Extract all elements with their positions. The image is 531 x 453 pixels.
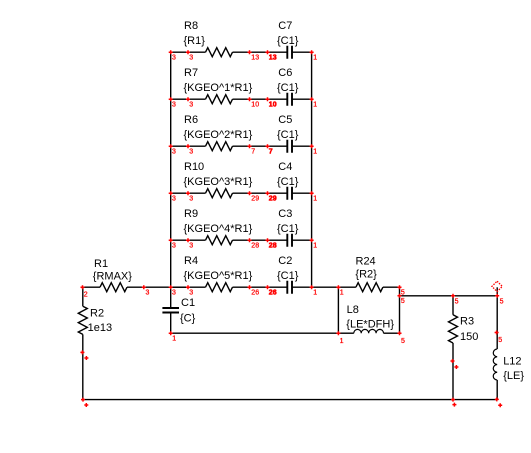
capacitor C3 (268, 208, 312, 247)
svg-text:5: 5 (500, 298, 504, 305)
pin numbers row R10/C4 (172, 196, 317, 203)
svg-text:5: 5 (401, 298, 405, 305)
pin numbers row R9/C3 (172, 243, 317, 250)
svg-text:{RMAX}: {RMAX} (93, 271, 132, 283)
svg-text:5: 5 (498, 337, 502, 344)
svg-text:1: 1 (313, 290, 317, 297)
svg-text:29: 29 (269, 196, 277, 203)
svg-text:3: 3 (189, 149, 193, 156)
svg-text:{KGEO^4*R1}: {KGEO^4*R1} (184, 223, 253, 235)
svg-text:{C1}: {C1} (277, 82, 299, 94)
svg-text:R4: R4 (184, 255, 198, 267)
svg-text:1: 1 (313, 196, 317, 203)
wire bottom rail (83, 399, 497, 401)
svg-text:1: 1 (340, 290, 344, 297)
svg-text:{LE*DFH}: {LE*DFH} (346, 318, 394, 330)
svg-text:28: 28 (269, 243, 277, 250)
pin numbers row R8/C7 (172, 55, 317, 62)
svg-text:3: 3 (189, 290, 193, 297)
svg-text:29: 29 (251, 196, 259, 203)
svg-text:R10: R10 (184, 161, 204, 173)
resistor R24 (338, 256, 400, 292)
svg-text:10: 10 (269, 102, 277, 109)
resistor R2 (78, 287, 112, 399)
svg-text:L12: L12 (503, 356, 521, 368)
svg-text:{R1}: {R1} (184, 35, 206, 47)
wire node5 rail (400, 295, 498, 297)
resistor R8 (171, 20, 250, 57)
svg-text:R9: R9 (184, 208, 198, 220)
inductor L12 (493, 287, 524, 399)
svg-text:{R2}: {R2} (355, 269, 377, 281)
wire C1 to L8 (171, 332, 339, 334)
resistor R4 (171, 255, 253, 292)
inductor L8 (338, 304, 399, 333)
svg-text:5: 5 (455, 298, 459, 305)
svg-text:R8: R8 (184, 20, 198, 32)
svg-text:1: 1 (172, 336, 176, 343)
svg-text:26: 26 (251, 290, 259, 297)
svg-text:3: 3 (189, 196, 193, 203)
pin numbers R24 (340, 290, 405, 297)
svg-text:{KGEO^3*R1}: {KGEO^3*R1} (184, 176, 253, 188)
pin numbers row R7/C6 (172, 102, 317, 109)
svg-text:C5: C5 (278, 114, 292, 126)
svg-text:3: 3 (172, 102, 176, 109)
svg-text:3: 3 (189, 243, 193, 250)
svg-text:{C1}: {C1} (277, 176, 299, 188)
wire box left (337, 287, 339, 333)
svg-text:{KGEO^1*R1}: {KGEO^1*R1} (184, 82, 253, 94)
svg-text:1e13: 1e13 (88, 322, 112, 334)
svg-text:R24: R24 (356, 256, 376, 268)
wire R10-C4 (250, 192, 268, 194)
wire R1 to bus (144, 286, 188, 288)
svg-text:28: 28 (251, 243, 259, 250)
pin numbers row R6/C5 (172, 149, 317, 156)
wire R6-C5 (250, 145, 268, 147)
svg-text:C1: C1 (181, 297, 195, 309)
svg-text:{KGEO^2*R1}: {KGEO^2*R1} (184, 129, 253, 141)
svg-text:1: 1 (340, 338, 344, 345)
capacitor C4 (268, 161, 312, 200)
svg-text:3: 3 (189, 102, 193, 109)
resistor R1 (83, 258, 145, 292)
svg-text:7: 7 (251, 149, 255, 156)
svg-text:3: 3 (172, 290, 176, 297)
svg-text:{C}: {C} (180, 312, 196, 324)
svg-text:R6: R6 (184, 114, 198, 126)
svg-text:R7: R7 (184, 67, 198, 79)
wire R7-C6 (250, 98, 268, 100)
resistor R6 (171, 114, 253, 151)
capacitor C2 (268, 255, 312, 294)
svg-text:{C1}: {C1} (277, 35, 299, 47)
resistor R10 (171, 161, 253, 198)
svg-text:1: 1 (313, 55, 317, 62)
wire R4-C2 (250, 286, 268, 288)
pin numbers L8 (340, 338, 405, 345)
wire left ladder bus (170, 52, 172, 308)
wire R8-C7 (250, 51, 268, 53)
svg-text:1: 1 (313, 149, 317, 156)
svg-text:3: 3 (146, 290, 150, 297)
capacitor C5 (268, 114, 312, 153)
capacitor C1 (162, 297, 195, 333)
svg-text:C4: C4 (278, 161, 292, 173)
pin and junction markers (80, 50, 502, 407)
resistor R7 (171, 67, 253, 104)
svg-text:C6: C6 (278, 67, 292, 79)
pin numbers R1 (84, 290, 150, 299)
capacitor C6 (268, 67, 312, 106)
svg-text:{KGEO^5*R1}: {KGEO^5*R1} (184, 270, 253, 282)
svg-text:L8: L8 (347, 304, 359, 316)
capacitor C7 (268, 20, 312, 59)
svg-text:{C1}: {C1} (277, 223, 299, 235)
svg-text:26: 26 (269, 290, 277, 297)
svg-text:13: 13 (251, 55, 259, 62)
svg-text:150: 150 (460, 331, 478, 343)
svg-text:3: 3 (172, 243, 176, 250)
pin numbers L12 (498, 298, 503, 343)
svg-text:R2: R2 (90, 308, 104, 320)
svg-text:1: 1 (313, 243, 317, 250)
svg-text:13: 13 (269, 55, 277, 62)
svg-text:10: 10 (251, 102, 259, 109)
svg-text:3: 3 (189, 55, 193, 62)
pin numbers row R4/C2 (172, 290, 317, 297)
svg-text:5: 5 (401, 338, 405, 345)
svg-text:{C1}: {C1} (277, 270, 299, 282)
svg-text:C7: C7 (278, 20, 292, 32)
wire box right (399, 287, 401, 333)
svg-text:7: 7 (269, 149, 273, 156)
svg-text:C3: C3 (278, 208, 292, 220)
svg-text:3: 3 (172, 55, 176, 62)
off-page connector diamond (492, 281, 502, 291)
svg-text:3: 3 (172, 149, 176, 156)
svg-text:C2: C2 (278, 255, 292, 267)
svg-text:{LE}: {LE} (503, 370, 524, 382)
svg-text:{C1}: {C1} (277, 129, 299, 141)
svg-text:R1: R1 (94, 258, 108, 270)
svg-text:R3: R3 (460, 315, 474, 327)
wire right ladder bus (311, 52, 313, 287)
svg-text:3: 3 (172, 196, 176, 203)
svg-text:1: 1 (313, 102, 317, 109)
resistor R3 (449, 296, 479, 400)
wire R9-C3 (250, 239, 268, 241)
svg-text:2: 2 (84, 291, 88, 298)
resistor R9 (171, 208, 253, 245)
wire rail to R24 (312, 286, 339, 288)
